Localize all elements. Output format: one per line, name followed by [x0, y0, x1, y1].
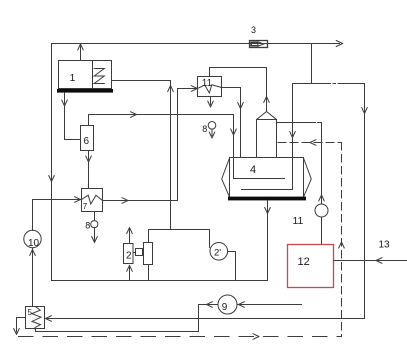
wire bottom collector y280.5 — [52, 280, 268, 282]
arrow down outlet — [208, 101, 214, 107]
svg-text:7: 7 — [83, 202, 88, 211]
compressor casing top — [149, 229, 210, 231]
svg-text:10: 10 — [28, 238, 40, 249]
arrow up into pump 10 — [30, 250, 36, 256]
arrow right end of top border — [336, 41, 343, 47]
wire heater5 to pump10 — [32, 248, 34, 306]
svg-text:4: 4 — [250, 164, 256, 176]
wire block1 bar down to block 6 — [65, 93, 81, 140]
arrow down on that wire — [62, 100, 68, 106]
svg-text:6: 6 — [84, 136, 90, 147]
arrow up on L1 vertical — [168, 86, 174, 92]
arrow left into pump 9 — [239, 302, 245, 308]
sensor circle 8b — [208, 122, 216, 130]
valve 3 inner glyph — [251, 42, 258, 46]
wire main return from right riser into block 5 — [46, 318, 365, 320]
arrow down on x292.5 wire — [290, 132, 296, 138]
arrow left into block 5 — [46, 316, 52, 322]
wire 13 into controller 12 — [334, 260, 407, 262]
thick base bar under block 1 — [57, 89, 113, 93]
valve 3 on top border — [250, 41, 268, 48]
wire pump10 to block7 left — [33, 200, 81, 231]
wire block1 top to border — [80, 45, 82, 61]
motor block 2 — [124, 244, 134, 264]
block 1 body — [59, 61, 112, 89]
zigzag in block 11 — [198, 85, 222, 93]
wire block1 right to compressor top (L1) — [112, 81, 171, 230]
svg-text:9: 9 — [222, 302, 228, 313]
dashed signal to dome — [278, 142, 342, 144]
block 7 — [82, 189, 103, 212]
vessel 4 left point — [222, 158, 230, 197]
shaft left — [133, 252, 136, 254]
svg-text:11: 11 — [202, 78, 213, 89]
compressor casing left edge upper — [148, 230, 150, 243]
arrow left on wire 13 — [376, 258, 382, 264]
heater block 5 — [26, 307, 45, 329]
wire block2 top arrow — [129, 230, 131, 244]
arrow right into block 11 — [191, 86, 197, 92]
wire y83 horizontal (with break) — [293, 83, 365, 85]
turbine circle 2' — [210, 243, 228, 261]
svg-text:12: 12 — [298, 256, 310, 268]
compressor casing left edge lower — [148, 265, 150, 281]
wire x292.5 down into vessel internal coil — [242, 84, 293, 190]
svg-text:3: 3 — [251, 25, 256, 35]
dashed bottom signal line — [19, 336, 342, 338]
wire block6 bottom to block 7 — [88, 151, 90, 189]
svg-text:1: 1 — [70, 72, 76, 84]
wire block2 bottom from collector — [129, 267, 131, 280]
svg-text:8: 8 — [85, 221, 90, 231]
arrow down on right riser — [362, 108, 368, 114]
wire dome right to sensor 11 (with break) — [277, 123, 322, 205]
wire top border — [52, 43, 340, 45]
wire block6 top to vessel inner line — [89, 115, 285, 179]
arrow down on left border — [49, 176, 55, 182]
coupler block — [136, 249, 143, 256]
arrow down below 8a — [92, 237, 98, 243]
block 11 — [198, 77, 222, 97]
drive block — [144, 243, 153, 265]
pump circle 9 — [218, 295, 237, 314]
svg-text:5: 5 — [28, 308, 33, 317]
arrow right on y114 wire — [131, 112, 137, 118]
block 1 divider — [92, 61, 94, 89]
dashed signal riser — [341, 143, 343, 337]
arrow up near dome apex — [264, 97, 270, 103]
arrow up above sensor 11 — [319, 195, 325, 201]
wire top border down at x311.5 — [311, 44, 313, 84]
wire block7 right up to block 11 — [103, 89, 197, 201]
arrow left on dashed signal — [310, 140, 316, 146]
arrow up into block 2 — [127, 265, 133, 271]
sensor circle 11 — [315, 204, 328, 217]
zigzag in block 7 — [82, 195, 103, 204]
dome on vessel 4 — [257, 120, 277, 158]
arrow down on left outlet — [14, 329, 20, 335]
wire block11 top to dome apex — [210, 68, 267, 112]
arrow up on dashed riser — [339, 242, 345, 248]
arrow right on dashed bottom — [253, 334, 259, 340]
svg-text:2': 2' — [214, 248, 221, 259]
wire block11 right down to vessel top — [222, 88, 241, 158]
arrow up above block 2 — [127, 228, 133, 234]
pump circle 10 — [24, 230, 41, 247]
wire block7 bottom to sensor 8a — [94, 212, 96, 221]
zigzag in block 5 — [32, 307, 41, 332]
arrow down on that wire — [238, 103, 244, 109]
arrow left on lower return — [207, 302, 213, 308]
svg-text:8: 8 — [202, 124, 207, 134]
sensor circle 8a — [91, 221, 98, 228]
arrow down on x233.5 wire — [231, 129, 237, 135]
arrow right mid wire — [122, 198, 128, 204]
arrow down on drain — [265, 208, 271, 214]
svg-text:13: 13 — [379, 240, 391, 251]
heater zigzag in block 1 — [94, 69, 104, 84]
wire 2' right to bottom collector — [228, 252, 236, 281]
wire left border — [51, 44, 53, 281]
vessel 4 body — [230, 158, 304, 198]
block 6 — [81, 126, 94, 151]
wire lower return from pump 9 to block5 bottom — [36, 305, 218, 332]
vessel 4 right point — [304, 158, 312, 197]
compressor casing right edge — [209, 230, 211, 248]
svg-text:2: 2 — [126, 251, 132, 262]
wire sensor 11 to controller 12 — [321, 217, 323, 245]
wire vessel drain to bottom collector — [267, 200, 269, 280]
controller 12 red box — [288, 245, 334, 288]
arrow up at border — [78, 44, 84, 50]
wire block11 bottom outlet — [210, 97, 212, 105]
arrow down below 8b — [209, 132, 215, 138]
arrow right into block 7 — [75, 197, 81, 203]
dome cap — [257, 112, 277, 120]
arrow down on that wire — [86, 156, 92, 162]
wire below sensor 8b — [211, 129, 213, 135]
shaft right — [143, 252, 144, 254]
wire below sensor 8a — [94, 228, 96, 241]
svg-text:11: 11 — [293, 215, 304, 227]
thick bar under vessel 4 — [228, 197, 306, 201]
wire into pump 9 from right — [238, 304, 302, 306]
wire block5 left outlet — [17, 318, 26, 333]
wire right riser x364.5 — [364, 84, 366, 319]
